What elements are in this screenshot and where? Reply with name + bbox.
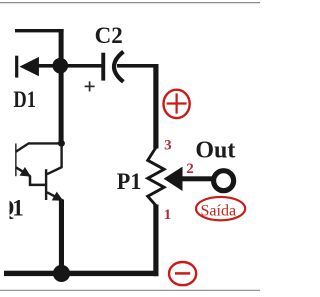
output terminal ring — [214, 171, 234, 191]
node: junction of D1, C2 and left bus — [53, 58, 69, 74]
node: bottom junction — [53, 265, 70, 282]
svg-text:C2: C2 — [95, 23, 123, 48]
potentiometer P1 wiper arrow and shaft — [164, 167, 213, 191]
label Q1 (clipped at left edge) — [0, 195, 24, 222]
wire: Q1 emitter down to bottom bus — [59, 200, 64, 274]
plus polarity mark of C2 — [85, 81, 95, 91]
potentiometer P1 body (zigzag) — [148, 148, 164, 206]
wire: right vertical bus down to P1 pin 3 — [153, 64, 158, 149]
svg-text:P1: P1 — [117, 169, 142, 194]
transistor (left half, partially cropped driver) — [15, 143, 59, 185]
svg-text:D1: D1 — [13, 87, 36, 112]
supply polarity plus (red) — [164, 90, 190, 118]
label Saída (red oval callout) — [196, 197, 245, 220]
capacitor C2 — [101, 52, 123, 82]
svg-text:1: 1 — [12, 195, 23, 220]
wire: bottom bus (negative rail) — [4, 271, 159, 276]
wire: D1 cathode lead to junction and on to C2 — [36, 64, 102, 68]
transistor Q1 — [45, 145, 63, 201]
wire: left vertical bus (top section, collector rail) — [59, 29, 64, 143]
svg-text:3: 3 — [164, 137, 172, 153]
diode D1 — [15, 56, 39, 78]
svg-text:Saída: Saída — [201, 202, 237, 219]
svg-text:2: 2 — [186, 161, 194, 177]
node: collector junction (small) — [58, 140, 65, 147]
wire: P1 pin 1 lead down to bottom bus — [153, 205, 158, 277]
wire: top horizontal stub to left bus corner — [15, 29, 64, 32]
svg-text:Out: Out — [195, 138, 235, 164]
wire: C2 to right bus corner — [117, 64, 159, 68]
supply polarity minus (red) — [169, 262, 196, 285]
svg-text:1: 1 — [164, 207, 172, 223]
